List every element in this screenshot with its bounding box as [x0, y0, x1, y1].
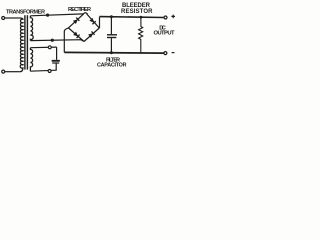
bleeder resistor R1: [139, 17, 143, 53]
svg-text:RESISTOR: RESISTOR: [121, 9, 153, 15]
svg-text:RECTIFIER: RECTIFIER: [68, 7, 91, 13]
bridge edge top-right: [87, 14, 100, 28]
junction dot on top rail: [46, 14, 49, 17]
wire bridge right corner up to plus bus: [99, 17, 101, 28]
wire input top: [5, 17, 20, 19]
plus bus: [100, 16, 164, 19]
bridge edge left-bottom: [68, 28, 84, 42]
AC input terminal bottom: [2, 70, 5, 73]
capacitor across lower winding: [56, 47, 58, 60]
diode D3 (left-bottom edge): [73, 32, 79, 38]
svg-text:OUTPUT: OUTPUT: [154, 31, 175, 37]
wire lower winding bottom: [30, 70, 56, 71]
bridge edge left-top: [68, 14, 83, 28]
open node on y47 wire: [48, 46, 51, 49]
minus bus: [64, 51, 164, 54]
transformer secondary lower winding: [30, 48, 32, 71]
junction dot cap bottom: [110, 51, 113, 54]
open node on y70 wire: [48, 70, 51, 73]
junction dot cap top: [110, 15, 113, 18]
transformer core: [24, 15, 26, 69]
bridge rectifier: top corner hump: [83, 13, 87, 15]
diode D2 (top-right edge): [89, 18, 95, 24]
junction dot on mid rail: [51, 39, 54, 42]
minus sign: [172, 52, 175, 54]
wire top rail (secondary top to bridge): [30, 14, 83, 16]
wire bridge left corner down to minus bus: [64, 28, 68, 53]
plus sign: [171, 15, 175, 19]
wire lower winding top: [30, 46, 56, 49]
filter capacitor C1: [110, 17, 112, 35]
wire mid rail (secondary bottom to bridge bottom): [30, 40, 83, 42]
diode D4 (bottom-right edge): [88, 31, 94, 37]
wire input bottom: [5, 71, 20, 73]
bridge edge bottom-right: [84, 28, 99, 42]
diode D1 (left-top edge): [73, 18, 79, 24]
transformer T1 primary winding: [20, 18, 23, 72]
DC output terminal minus: [164, 52, 167, 55]
DC output terminal plus: [164, 16, 167, 19]
transformer secondary upper winding: [30, 16, 33, 41]
svg-text:CAPACITOR: CAPACITOR: [97, 62, 127, 68]
svg-text:TRANSFORMER: TRANSFORMER: [6, 9, 45, 15]
AC input terminal top: [2, 17, 5, 20]
junction dot resistor top: [140, 16, 143, 19]
